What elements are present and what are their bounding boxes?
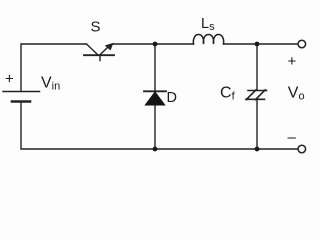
node: diode bottom junction <box>153 147 158 152</box>
wire capacitor branch top <box>256 44 258 90</box>
wire top-left: battery top to switch <box>21 44 87 91</box>
svg-text:S: S <box>91 19 101 36</box>
svg-text:–: – <box>288 129 297 146</box>
svg-text:+: + <box>5 71 14 88</box>
terminal - output <box>298 145 306 153</box>
switch S (transistor-style) <box>84 43 114 61</box>
svg-text:Vin: Vin <box>41 75 60 93</box>
wire diode branch bottom <box>154 105 156 149</box>
capacitor Cf <box>246 90 267 100</box>
inductor Ls <box>193 35 223 44</box>
diode D <box>144 91 166 105</box>
wire diode branch top <box>154 44 156 91</box>
terminal + output <box>298 40 306 48</box>
svg-text:+: + <box>288 53 297 70</box>
wire top-middle: switch to inductor <box>113 43 194 45</box>
wire capacitor branch bottom <box>256 100 258 150</box>
node: switch-diode junction <box>153 42 158 47</box>
svg-text:D: D <box>167 90 177 106</box>
node: capacitor bottom junction <box>255 147 260 152</box>
node: capacitor top junction <box>255 42 260 47</box>
svg-text:Cf: Cf <box>220 85 236 103</box>
battery V_in <box>3 92 40 102</box>
wire top-right: inductor to + terminal <box>224 43 298 45</box>
wire bottom rail <box>21 102 298 149</box>
svg-text:Vo: Vo <box>288 85 305 103</box>
svg-text:Ls: Ls <box>201 16 215 33</box>
